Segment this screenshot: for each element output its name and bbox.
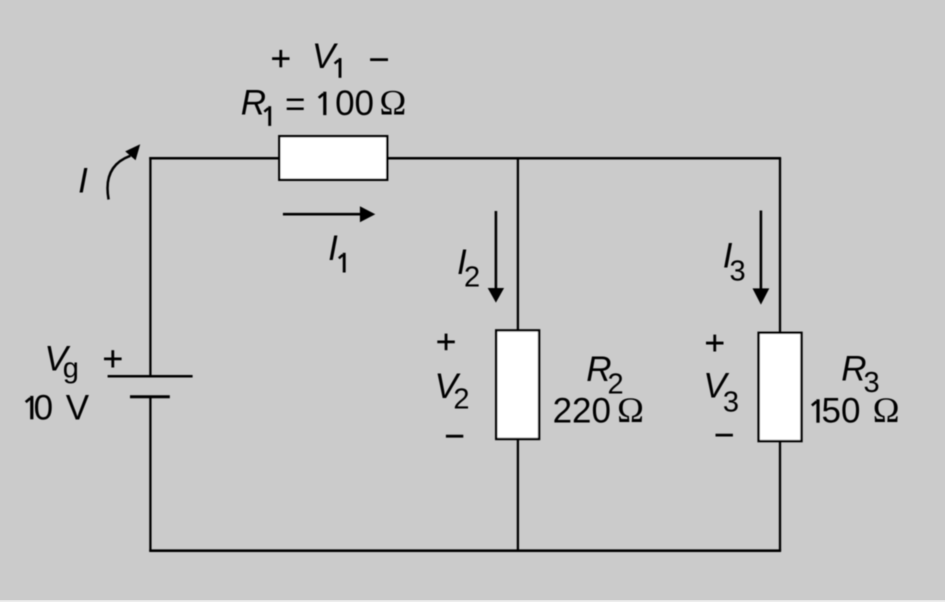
label: plus sign of V2 bbox=[437, 334, 455, 351]
bottom edge light strip bbox=[0, 600, 945, 602]
svg-text:V: V bbox=[312, 37, 339, 76]
wire: left vertical lower (battery - to bottom node) bbox=[149, 397, 151, 552]
svg-text:V: V bbox=[66, 388, 90, 427]
wire: right branch vertical (node C through R3) bbox=[779, 158, 781, 551]
current I1 arrow bbox=[283, 206, 375, 222]
svg-text:2: 2 bbox=[453, 384, 469, 416]
svg-text:=: = bbox=[285, 85, 305, 124]
svg-text:0: 0 bbox=[34, 388, 53, 427]
wire: left vertical upper (node A to battery +) bbox=[149, 157, 151, 375]
label: V1 subscript 1 bbox=[335, 58, 340, 78]
resistor R3 body bbox=[759, 333, 802, 441]
wire: top horizontal from node A to node C bbox=[149, 157, 781, 160]
svg-text:I: I bbox=[328, 229, 338, 268]
svg-text:g: g bbox=[63, 352, 79, 384]
label: minus sign of V1 bbox=[370, 58, 388, 61]
svg-text:3: 3 bbox=[730, 256, 746, 288]
label: value 10 V bbox=[26, 396, 32, 419]
svg-text:Ω: Ω bbox=[380, 83, 407, 123]
svg-text:00: 00 bbox=[335, 84, 374, 123]
label: minus sign of V3 bbox=[716, 434, 733, 437]
label: plus sign of V1 bbox=[272, 50, 289, 67]
label: R1 subscript 1 bbox=[264, 106, 269, 126]
battery Vg positive plate bbox=[108, 375, 193, 378]
current I curved arrow bbox=[108, 144, 141, 199]
wire: bottom horizontal return bbox=[149, 549, 781, 552]
label: I1 subscript 1 bbox=[339, 253, 344, 273]
svg-text:220: 220 bbox=[553, 392, 611, 431]
resistor R1 body bbox=[279, 136, 387, 180]
label: plus sign of V3 bbox=[706, 335, 724, 352]
resistor R2 body bbox=[496, 330, 539, 439]
label: plus sign at battery bbox=[104, 350, 122, 367]
current I2 arrow bbox=[488, 211, 504, 303]
wire: middle branch vertical (node B through R2) bbox=[517, 158, 519, 551]
svg-text:R: R bbox=[241, 83, 266, 122]
label: value 150 bbox=[812, 399, 818, 422]
svg-text:Ω: Ω bbox=[617, 390, 644, 430]
current I3 arrow bbox=[753, 211, 770, 305]
label: minus sign of V2 bbox=[446, 435, 463, 438]
svg-text:I: I bbox=[78, 162, 88, 201]
svg-text:Ω: Ω bbox=[873, 390, 900, 430]
svg-text:3: 3 bbox=[723, 387, 739, 419]
label: value 100 bbox=[319, 92, 325, 115]
svg-text:50: 50 bbox=[822, 392, 861, 431]
battery Vg negative plate bbox=[130, 395, 170, 398]
svg-text:2: 2 bbox=[464, 261, 480, 293]
